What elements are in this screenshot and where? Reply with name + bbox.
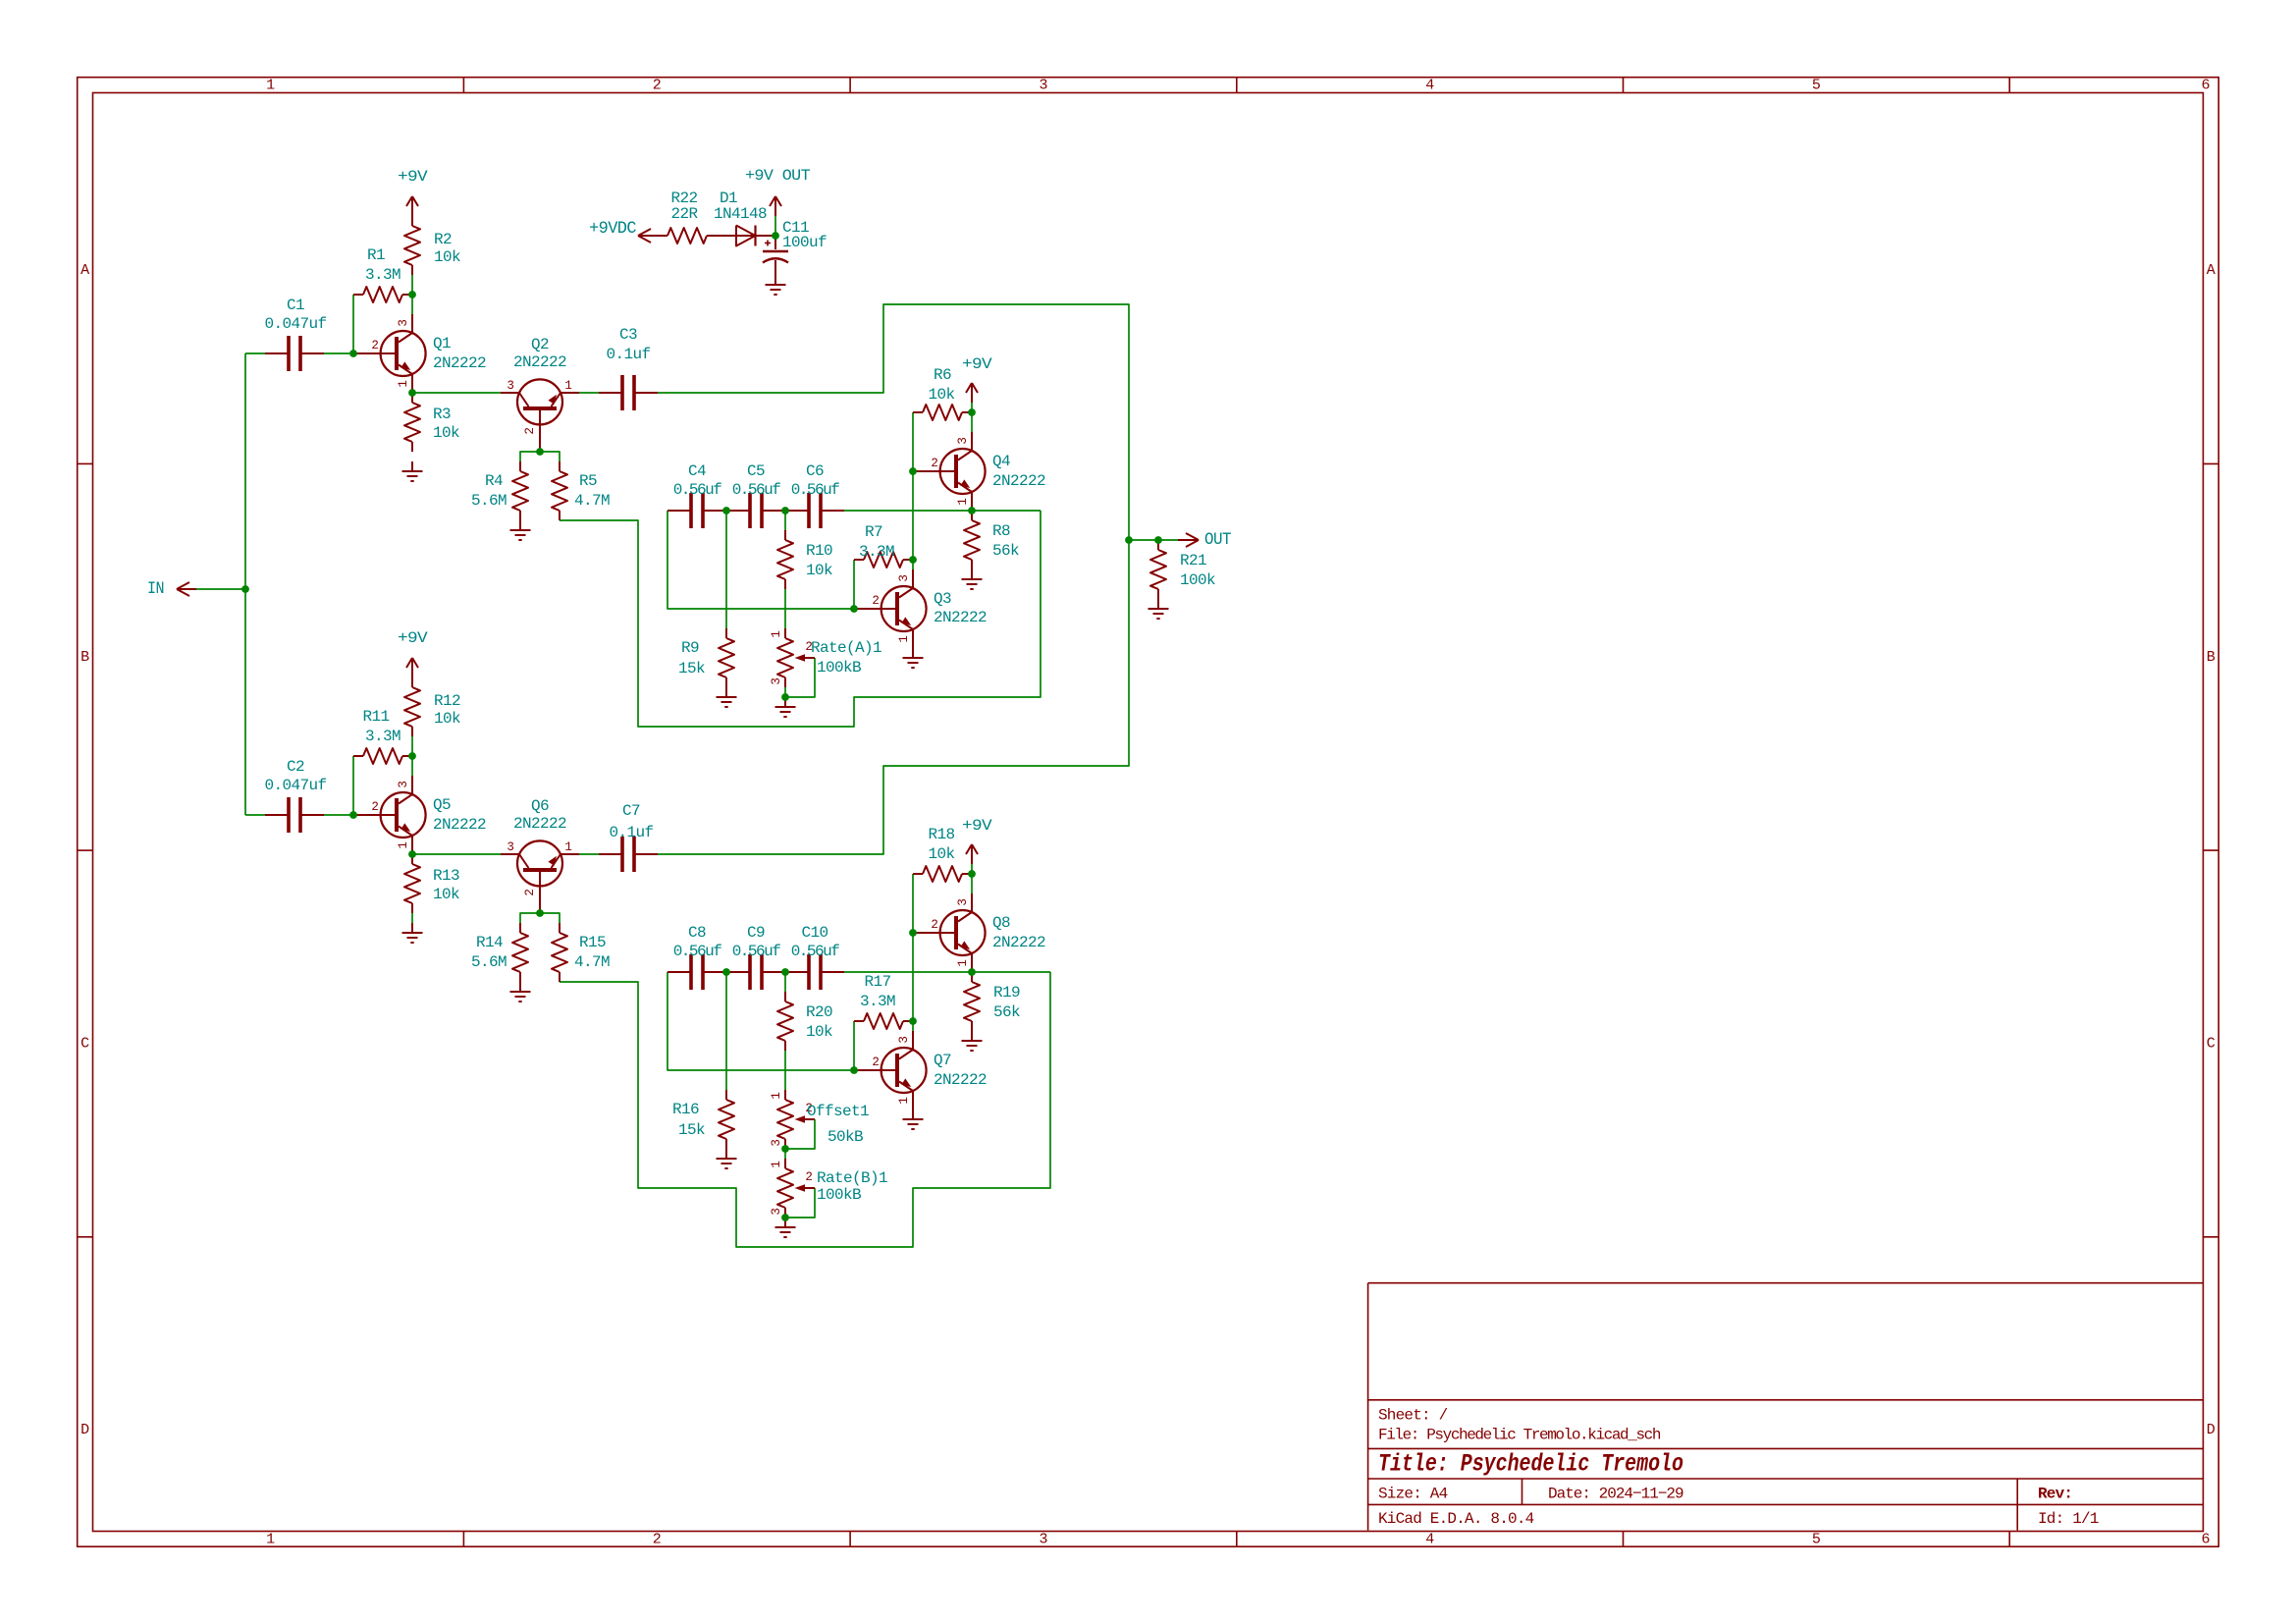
svg-text:Rev:: Rev: [2038, 1486, 2072, 1503]
svg-text:2N2222: 2N2222 [992, 934, 1045, 951]
svg-text:2N2222: 2N2222 [992, 472, 1045, 490]
resistor R2 [404, 216, 460, 275]
wire power to R6 node [971, 403, 973, 412]
svg-text:Q8: Q8 [992, 914, 1010, 932]
svg-text:Rate(B)1: Rate(B)1 [817, 1169, 887, 1187]
svg-text:6: 6 [2201, 1531, 2210, 1547]
resistor R19 [964, 972, 1020, 1031]
capacitor C4 [667, 462, 726, 528]
svg-text:File: Psychedelic Tremolo.kica: File: Psychedelic Tremolo.kicad_sch [1378, 1427, 1661, 1444]
svg-text:Q1: Q1 [433, 335, 451, 352]
svg-text:3: 3 [956, 437, 970, 444]
svg-text:4.7M: 4.7M [574, 953, 610, 971]
svg-text:1: 1 [956, 959, 970, 966]
capacitor C1 [264, 297, 326, 371]
wire node to Q5 collector [411, 756, 413, 776]
svg-text:56k: 56k [993, 1003, 1020, 1021]
wire power OUT to D1 node [774, 216, 776, 236]
resistor R20 [777, 992, 832, 1051]
junction at 990,990 [968, 968, 976, 976]
svg-text:C7: C7 [622, 802, 640, 820]
transistor Q5 [353, 776, 426, 854]
svg-text:3: 3 [897, 1036, 911, 1043]
wire C10 emitter row [844, 971, 1050, 973]
wire R1 left to base node [352, 295, 354, 353]
svg-text:2: 2 [805, 1170, 812, 1184]
svg-text:R15: R15 [579, 934, 606, 951]
transistor Q1 [353, 314, 426, 393]
ground Q7 [903, 1110, 924, 1129]
svg-text:1: 1 [770, 1161, 783, 1167]
svg-text:1: 1 [564, 840, 571, 854]
svg-text:2N2222: 2N2222 [934, 609, 987, 626]
svg-text:5.6M: 5.6M [471, 492, 507, 510]
junction at 930,570 [909, 556, 917, 564]
wire Q6 base to R14 [520, 913, 540, 923]
svg-text:Date: 2024−11−29: Date: 2024−11−29 [1548, 1486, 1683, 1503]
svg-text:Q4: Q4 [992, 453, 1010, 470]
wire RateB wiper loop [785, 1188, 815, 1218]
capacitor C7 [599, 802, 658, 872]
junction at 740,520 [722, 507, 730, 514]
ground C11 [766, 275, 786, 295]
svg-text:3: 3 [1039, 1531, 1047, 1547]
wire R13 bottom to ground [411, 913, 413, 923]
svg-text:D: D [2207, 1422, 2216, 1438]
svg-text:2: 2 [872, 594, 879, 608]
capacitor C3 [599, 326, 658, 410]
svg-text:C10: C10 [801, 924, 828, 942]
ground R13 [402, 923, 423, 943]
svg-text:R20: R20 [806, 1003, 832, 1021]
svg-text:R17: R17 [864, 973, 890, 991]
svg-text:R8: R8 [992, 522, 1010, 540]
svg-text:1N4148: 1N4148 [714, 205, 767, 223]
wire node to Q1 collector [411, 295, 413, 314]
resistor R7 [854, 523, 913, 568]
wire R12 bottom to node [411, 736, 413, 756]
capacitor C9 [726, 924, 785, 990]
wire Offset1 pin3 to RateB pin1 [784, 1149, 786, 1159]
title block [1368, 1283, 2204, 1531]
wire R6 right to Q4 collector [971, 412, 973, 432]
resistor R8 [964, 511, 1019, 569]
resistor R4 [471, 461, 528, 520]
svg-text:0.56uf: 0.56uf [791, 943, 840, 960]
wire C1 to Q1 base [324, 352, 353, 354]
capacitor C6 [785, 462, 844, 528]
ground RateA1 [775, 697, 796, 717]
svg-text:1: 1 [897, 635, 911, 642]
wire R7 node to Q3 collector [912, 560, 914, 569]
svg-text:C4: C4 [688, 462, 706, 480]
svg-text:0.56uf: 0.56uf [791, 481, 840, 499]
svg-text:10k: 10k [806, 562, 832, 579]
svg-text:0.56uf: 0.56uf [732, 481, 781, 499]
junction at 930,1040 [909, 1017, 917, 1025]
svg-text:0.1uf: 0.1uf [609, 824, 653, 841]
ground R16 [717, 1149, 737, 1168]
power +9V R12 [398, 629, 428, 677]
wire C8 left down to Q7 base [667, 972, 854, 1070]
transistor Q2 [501, 379, 579, 452]
svg-text:R7: R7 [865, 523, 882, 541]
svg-text:2: 2 [523, 889, 537, 895]
junction at 360,360 [349, 350, 357, 357]
wire IN stub to input node [196, 588, 245, 590]
svg-text:3: 3 [507, 379, 513, 393]
capacitor C11 [763, 219, 827, 275]
svg-text:R6: R6 [934, 366, 951, 384]
svg-text:2: 2 [931, 457, 937, 470]
svg-text:Size: A4: Size: A4 [1378, 1486, 1448, 1503]
svg-text:0.56uf: 0.56uf [673, 481, 722, 499]
svg-text:2N2222: 2N2222 [513, 353, 566, 371]
svg-text:C6: C6 [806, 462, 824, 480]
wire R20 to pot Offset1 [784, 1051, 786, 1090]
svg-text:R16: R16 [672, 1101, 699, 1118]
ground Q3 [903, 648, 924, 668]
svg-text:3: 3 [507, 840, 513, 854]
svg-text:2: 2 [523, 427, 537, 434]
wire R17 node to Q7 collector [912, 1021, 914, 1031]
resistor R15 [552, 923, 610, 982]
svg-text:3: 3 [956, 898, 970, 905]
capacitor C8 [667, 924, 726, 990]
wire C5 node to R10 [784, 511, 786, 530]
wire R11 left to Q5 base [352, 756, 354, 815]
svg-text:Q5: Q5 [433, 796, 451, 814]
junction at 800,520 [781, 507, 789, 514]
junction at 800,1170 [781, 1145, 789, 1153]
svg-text:Id: 1/1: Id: 1/1 [2038, 1510, 2099, 1528]
svg-text:1: 1 [897, 1097, 911, 1104]
junction at 800,990 [781, 968, 789, 976]
transistor Q6 [501, 840, 579, 913]
svg-text:+9V: +9V [962, 817, 992, 835]
junction at 420,300 [408, 291, 416, 298]
wire Q6 base to R15 [540, 913, 560, 923]
svg-text:100uf: 100uf [782, 234, 827, 251]
svg-text:6: 6 [2201, 78, 2210, 94]
resistor R16 [672, 1090, 734, 1149]
wire R18 left vertical [912, 874, 914, 1021]
wire input bus vertical [244, 353, 246, 815]
svg-text:1: 1 [266, 78, 275, 94]
svg-text:2N2222: 2N2222 [934, 1071, 987, 1089]
svg-text:1: 1 [266, 1531, 275, 1547]
svg-text:+9V: +9V [962, 355, 992, 373]
svg-text:1: 1 [564, 379, 571, 393]
label Q1 [433, 335, 486, 372]
junction at 420,400 [408, 389, 416, 397]
resistor R9 [678, 628, 734, 687]
svg-text:Q6: Q6 [531, 797, 549, 815]
ground R21 [1148, 599, 1169, 619]
svg-text:Title: Psychedelic Tremolo: Title: Psychedelic Tremolo [1378, 1450, 1683, 1479]
svg-text:2: 2 [653, 1531, 662, 1547]
resistor R22 [658, 189, 717, 244]
wire to C2 [245, 814, 265, 816]
svg-text:0.56uf: 0.56uf [732, 943, 781, 960]
wire R18 right to Q8 collector [971, 874, 973, 893]
wire to C1 [245, 352, 265, 354]
svg-text:C: C [80, 1036, 89, 1053]
junction at 1150,550 [1125, 536, 1133, 544]
transistor Q3 [854, 569, 927, 648]
wire pot RateA pin3 to ground node [784, 687, 786, 697]
label Q6 [513, 797, 566, 833]
label Q3 [934, 590, 987, 626]
svg-text:Offset1: Offset1 [807, 1103, 869, 1120]
svg-text:10k: 10k [928, 386, 954, 404]
svg-text:3: 3 [770, 677, 783, 684]
svg-text:C: C [2207, 1036, 2216, 1053]
junction at 250,600 [241, 585, 249, 593]
svg-text:3: 3 [397, 781, 410, 787]
svg-text:A: A [2207, 262, 2216, 279]
svg-text:C5: C5 [747, 462, 765, 480]
svg-text:IN: IN [147, 579, 164, 599]
svg-text:C8: C8 [688, 924, 706, 942]
svg-text:OUT: OUT [1204, 530, 1231, 550]
svg-text:R4: R4 [485, 472, 503, 490]
svg-text:5.6M: 5.6M [471, 953, 507, 971]
svg-text:22R: 22R [670, 205, 698, 223]
svg-text:R13: R13 [433, 867, 459, 885]
wire C4 left down to Q3 base [667, 511, 854, 609]
ground R4 [510, 520, 531, 540]
transistor Q8 [913, 893, 986, 972]
svg-text:100kB: 100kB [817, 1186, 861, 1204]
svg-text:3: 3 [770, 1139, 783, 1146]
wire R17 left to Q7 base node [853, 1021, 855, 1070]
wire C7 to OUT bus lower [658, 540, 1129, 854]
wire C3 to OUT bus [658, 304, 1129, 540]
wire R15 bottom feedback loop lower [560, 972, 1050, 1247]
svg-text:C9: C9 [747, 924, 765, 942]
junction at 1180,550 [1154, 536, 1162, 544]
svg-text:0.047uf: 0.047uf [264, 777, 326, 794]
junction at 930,950 [909, 929, 917, 937]
svg-text:R11: R11 [362, 708, 389, 726]
ground RateB1 [775, 1218, 796, 1237]
junction at 800,710 [781, 693, 789, 701]
svg-text:B: B [2207, 649, 2216, 666]
junction at 360,830 [349, 811, 357, 819]
svg-text:Rate(A)1: Rate(A)1 [811, 639, 881, 657]
label Q2 [513, 336, 566, 371]
svg-text:+9VDC: +9VDC [589, 219, 636, 239]
resistor R6 [913, 366, 972, 420]
svg-text:1: 1 [770, 630, 783, 637]
svg-text:Q2: Q2 [531, 336, 549, 353]
wire Q6 emitter to C7 [579, 853, 599, 855]
wire OUT node links [1129, 539, 1178, 541]
svg-text:10k: 10k [433, 424, 459, 442]
resistor R13 [404, 854, 459, 913]
wire R2 bottom to node [411, 275, 413, 295]
svg-text:56k: 56k [992, 542, 1019, 560]
svg-text:4.7M: 4.7M [574, 492, 610, 510]
resistor R11 [353, 708, 412, 764]
svg-text:5: 5 [1812, 1531, 1821, 1547]
svg-text:2N2222: 2N2222 [433, 816, 486, 834]
svg-text:50kB: 50kB [828, 1128, 863, 1146]
wire C8 node to R16 [725, 972, 727, 1090]
svg-text:Q3: Q3 [934, 590, 951, 608]
svg-text:R9: R9 [681, 639, 699, 657]
ground R8 [962, 569, 983, 589]
resistor R21 [1150, 540, 1215, 599]
junction at 420,870 [408, 850, 416, 858]
junction at 990,520 [968, 507, 976, 514]
svg-text:R10: R10 [806, 542, 832, 560]
svg-text:100k: 100k [1180, 571, 1215, 589]
svg-text:R2: R2 [434, 231, 452, 248]
svg-text:4: 4 [1425, 78, 1434, 94]
wire pot RateA wiper loop [785, 658, 815, 697]
junction at 930,480 [909, 467, 917, 475]
potentiometer Offset1 [770, 1090, 869, 1149]
svg-text:2: 2 [371, 800, 378, 814]
svg-text:C2: C2 [287, 758, 304, 776]
junction at 550,930 [536, 909, 544, 917]
label Q5 [433, 796, 486, 834]
svg-text:4: 4 [1425, 1531, 1434, 1547]
potentiometer RateB1 [770, 1159, 887, 1218]
power +9V R6 [962, 355, 992, 403]
resistor R14 [471, 923, 528, 982]
svg-text:0.56uf: 0.56uf [673, 943, 722, 960]
wire C9 node to R20 [784, 972, 786, 992]
svg-text:+9V: +9V [398, 629, 428, 647]
potentiometer RateA1 [770, 628, 881, 687]
svg-text:15k: 15k [678, 1121, 705, 1139]
svg-text:R12: R12 [434, 692, 460, 710]
junction at 420,770 [408, 752, 416, 760]
label Q7 [934, 1052, 987, 1089]
svg-text:A: A [80, 262, 89, 279]
transistor Q7 [854, 1031, 927, 1110]
svg-text:3: 3 [897, 574, 911, 581]
svg-text:R18: R18 [928, 826, 954, 843]
svg-text:15k: 15k [678, 660, 705, 677]
resistor R10 [777, 530, 832, 589]
junction at 870,1090 [850, 1066, 858, 1074]
junction at 990,890 [968, 870, 976, 878]
ground R9 [717, 687, 737, 707]
svg-text:0.047uf: 0.047uf [264, 315, 326, 333]
svg-text:1: 1 [770, 1092, 783, 1099]
svg-text:2N2222: 2N2222 [433, 354, 486, 372]
svg-text:2: 2 [931, 918, 937, 932]
svg-text:3: 3 [397, 319, 410, 326]
wire Q5 emitter to Q6 collector [412, 853, 501, 855]
svg-text:10k: 10k [928, 845, 954, 863]
hier label OUT [1178, 530, 1231, 550]
svg-text:10k: 10k [433, 886, 459, 903]
svg-text:KiCad E.D.A. 8.0.4: KiCad E.D.A. 8.0.4 [1378, 1510, 1534, 1528]
svg-text:R19: R19 [993, 984, 1020, 1001]
wire C4 node to R9 [725, 511, 727, 628]
svg-text:10k: 10k [806, 1023, 832, 1041]
resistor R1 [353, 246, 412, 302]
svg-text:5: 5 [1812, 78, 1821, 94]
svg-text:Sheet: /: Sheet: / [1378, 1407, 1448, 1425]
junction at 870,620 [850, 605, 858, 613]
ground R19 [962, 1031, 983, 1051]
wire Q1 emitter to Q2 collector [412, 392, 501, 394]
resistor R5 [552, 461, 610, 520]
wire C6 emitter row [844, 510, 1041, 512]
svg-text:R14: R14 [476, 934, 503, 951]
svg-text:R21: R21 [1180, 552, 1206, 569]
svg-text:3: 3 [770, 1208, 783, 1215]
svg-text:3.3M: 3.3M [859, 543, 894, 561]
svg-text:C1: C1 [287, 297, 304, 314]
junction at 990,420 [968, 408, 976, 416]
svg-text:3.3M: 3.3M [860, 993, 895, 1010]
svg-text:1: 1 [956, 498, 970, 505]
svg-text:2: 2 [371, 339, 378, 352]
wire C2 to Q5 base [324, 814, 353, 816]
diode D1 [714, 189, 775, 246]
transistor Q4 [913, 432, 986, 511]
svg-text:2: 2 [653, 78, 662, 94]
svg-text:+9V: +9V [398, 168, 428, 186]
hier label +9VDC [589, 219, 658, 243]
svg-text:B: B [80, 649, 89, 666]
svg-text:2: 2 [872, 1056, 879, 1069]
junction at 550,460 [536, 448, 544, 456]
svg-text:3: 3 [1039, 78, 1047, 94]
label Q4 [992, 453, 1045, 490]
resistor R3 [404, 393, 459, 452]
svg-text:1: 1 [397, 841, 410, 848]
power +9V OUT [745, 167, 810, 216]
svg-text:R1: R1 [367, 246, 385, 264]
svg-text:0.1uf: 0.1uf [606, 346, 650, 363]
power +9V R18 [962, 817, 992, 864]
svg-text:3.3M: 3.3M [365, 266, 400, 284]
junction at 800,1240 [781, 1214, 789, 1221]
capacitor C2 [264, 758, 326, 833]
svg-text:D: D [80, 1422, 89, 1438]
capacitor C5 [726, 462, 785, 528]
svg-text:100kB: 100kB [817, 659, 861, 677]
power +9V R2 [398, 168, 428, 216]
hier label IN [147, 579, 196, 599]
junction at 740,990 [722, 968, 730, 976]
resistor R18 [913, 826, 972, 882]
resistor R17 [854, 973, 913, 1029]
wire Offset1 wiper loop [785, 1119, 815, 1149]
wire Q2 base to R5 [540, 452, 560, 461]
resistor R12 [404, 677, 460, 736]
ground R14 [510, 982, 531, 1001]
svg-text:C3: C3 [619, 326, 637, 344]
wire Q2 base to R4 [520, 452, 540, 461]
svg-text:1: 1 [397, 380, 410, 387]
wire R7 left to Q3 base node [853, 560, 855, 609]
svg-text:Q7: Q7 [934, 1052, 951, 1069]
svg-text:10k: 10k [434, 248, 460, 266]
capacitor C10 [785, 924, 844, 990]
svg-text:R5: R5 [579, 472, 597, 490]
label Q8 [992, 914, 1045, 951]
svg-text:+9V OUT: +9V OUT [745, 167, 810, 185]
